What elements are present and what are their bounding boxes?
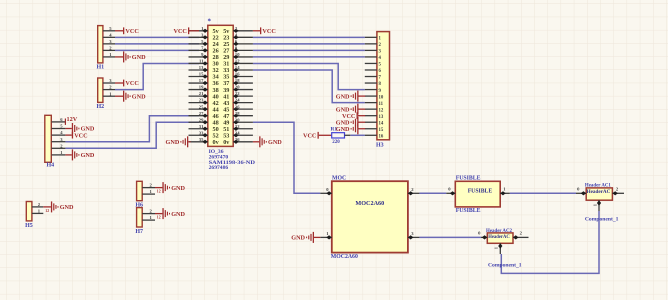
svg-text:GND: GND [291,235,305,242]
svg-text:GND: GND [132,93,146,100]
svg-text:27: 27 [199,111,204,116]
svg-text:GND: GND [336,93,350,100]
svg-text:23: 23 [199,98,204,103]
svg-text:0v: 0v [213,139,220,146]
svg-text:H7: H7 [135,229,143,235]
svg-text:Component_1: Component_1 [488,263,522,269]
svg-text:2697486: 2697486 [209,165,229,171]
svg-text:17: 17 [199,78,204,83]
svg-text:26: 26 [235,104,240,109]
svg-text:H5: H5 [25,223,33,229]
svg-text:25: 25 [199,104,204,109]
svg-text:VCC: VCC [125,28,138,35]
svg-text:14: 14 [235,65,240,70]
svg-text:Header AC2: Header AC2 [486,228,512,234]
svg-text:FUSIBLE: FUSIBLE [456,208,481,214]
svg-text:GND: GND [336,126,350,133]
svg-text:12: 12 [45,209,49,213]
svg-text:VCC: VCC [342,113,355,120]
svg-text:FUSIBLE: FUSIBLE [456,176,481,182]
svg-text:21: 21 [199,91,204,96]
svg-text:22: 22 [235,91,240,96]
svg-text:H2: H2 [97,104,105,110]
svg-text:GND: GND [60,204,74,211]
svg-text:20: 20 [235,85,240,90]
svg-text:28: 28 [235,111,240,116]
svg-text:12: 12 [157,190,161,194]
svg-text:16: 16 [379,134,384,139]
svg-text:10: 10 [379,95,384,100]
svg-text:VCC: VCC [74,132,87,139]
svg-text:GND: GND [166,139,180,146]
svg-text:18: 18 [235,78,240,83]
svg-text:11: 11 [379,102,384,107]
svg-text:220: 220 [332,140,340,145]
svg-text:15: 15 [379,128,384,133]
svg-text:H1: H1 [97,65,105,71]
svg-text:SAM1198-36-ND: SAM1198-36-ND [209,160,255,166]
svg-text:24: 24 [235,98,240,103]
svg-text:19: 19 [199,85,204,90]
svg-text:VCC: VCC [125,80,138,87]
svg-text:15: 15 [199,72,204,77]
svg-text:10: 10 [235,52,240,57]
svg-text:31: 31 [199,124,204,129]
svg-text:13: 13 [379,115,384,120]
svg-text:GND: GND [132,54,146,61]
svg-text:30: 30 [235,117,240,122]
svg-text:14: 14 [379,121,384,126]
svg-text:HeaderAC: HeaderAC [488,234,510,240]
svg-text:VCC: VCC [303,132,316,139]
svg-text:Header AC1: Header AC1 [585,182,611,188]
svg-text:GND: GND [171,185,185,192]
svg-text:13: 13 [199,65,204,70]
svg-text:R1: R1 [331,127,338,133]
svg-text:GND: GND [268,139,282,146]
svg-text:VCC: VCC [173,28,186,35]
svg-text:11: 11 [199,59,204,64]
svg-text:GND: GND [81,152,95,159]
svg-text:29: 29 [199,117,204,122]
svg-text:MOC: MOC [332,176,346,182]
svg-text:12V: 12V [67,116,78,123]
svg-text:32: 32 [235,124,240,129]
svg-text:12: 12 [235,59,240,64]
svg-text:0v: 0v [223,139,230,146]
svg-text:VCC: VCC [262,28,275,35]
svg-text:36: 36 [235,137,240,142]
svg-text:MOC2A60: MOC2A60 [331,254,358,260]
svg-text:HeaderAC: HeaderAC [587,189,611,195]
svg-text:GND: GND [171,211,185,218]
svg-text:*: * [208,18,212,26]
svg-text:16: 16 [235,72,240,77]
svg-text:MOC2A60: MOC2A60 [355,200,384,207]
svg-text:H4: H4 [47,163,55,169]
svg-text:35: 35 [199,137,204,142]
svg-text:FUSIBLE: FUSIBLE [468,189,493,195]
svg-text:12: 12 [379,108,384,113]
svg-text:33: 33 [199,130,204,135]
svg-text:12: 12 [157,216,161,220]
svg-text:H3: H3 [376,143,384,149]
svg-text:34: 34 [235,130,240,135]
svg-text:Component_1: Component_1 [585,217,619,223]
